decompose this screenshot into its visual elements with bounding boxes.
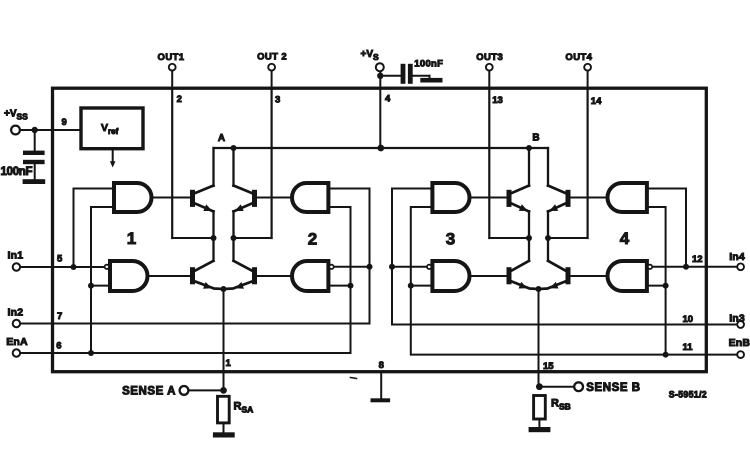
svg-text:4: 4 [385,94,391,105]
svg-text:12: 12 [692,254,703,265]
svg-text:100nF: 100nF [1,166,33,178]
svg-text:SENSE B: SENSE B [586,382,640,394]
svg-text:EnB: EnB [729,337,750,349]
svg-text:3: 3 [446,230,455,249]
svg-text:In1: In1 [8,250,24,262]
svg-text:OUT 2: OUT 2 [257,52,287,63]
svg-text:100nF: 100nF [414,59,443,70]
svg-text:EnA: EnA [6,336,28,348]
svg-text:13: 13 [492,95,503,106]
svg-text:5: 5 [57,254,63,265]
svg-text:1: 1 [127,229,136,248]
svg-text:2: 2 [177,94,182,105]
svg-text:S-5951/2: S-5951/2 [669,390,707,400]
svg-text:7: 7 [57,311,62,322]
svg-text:4: 4 [620,229,630,248]
svg-text:3: 3 [275,95,280,106]
svg-text:In4: In4 [729,251,745,263]
svg-text:14: 14 [591,96,602,107]
svg-text:OUT1: OUT1 [158,52,185,63]
svg-text:8: 8 [379,360,384,371]
svg-text:15: 15 [543,361,554,372]
svg-text:A: A [218,133,225,144]
svg-text:SENSE A: SENSE A [122,385,176,397]
svg-text:10: 10 [683,314,694,325]
svg-text:6: 6 [56,341,61,352]
svg-text:11: 11 [683,342,694,353]
svg-text:OUT3: OUT3 [476,52,503,63]
svg-text:B: B [532,133,539,144]
svg-text:In2: In2 [8,307,24,319]
svg-text:OUT4: OUT4 [565,52,592,63]
svg-text:1: 1 [226,358,232,369]
svg-text:2: 2 [308,230,317,249]
svg-text:In3: In3 [729,313,745,325]
svg-text:9: 9 [62,117,67,128]
